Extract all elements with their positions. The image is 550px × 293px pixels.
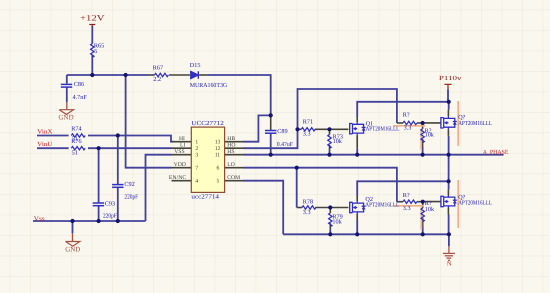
wire R76 to LI pin [88,147,172,149]
svg-text:R74: R74 [71,126,81,133]
wire R74 to HI jog [88,136,173,142]
junction dot Vss/C93 [97,219,101,223]
pin stub QB gate [423,201,441,203]
svg-text:R?: R? [403,112,410,119]
pin stub U1 pin1 HI [172,141,192,143]
transistor QT Q? [441,116,457,129]
svg-text:VinU: VinU [37,141,53,148]
transistor Q1 [350,122,366,135]
svg-text:R71: R71 [303,119,313,126]
wire C92 column upper [117,136,119,185]
wire QB source to COM rail [448,215,450,235]
resistor RB10k R? [421,208,424,222]
pin stub Q1 source [356,135,358,149]
svg-text:1: 1 [195,139,198,145]
svg-text:C93: C93 [105,201,115,208]
svg-text:GND: GND [65,246,80,254]
pin stub U1 pin6 LO [225,167,243,169]
resistor R78 [302,206,316,209]
wire A_PHASE vertical mid [448,155,450,182]
svg-text:C89: C89 [277,128,287,135]
wire Q2 source to COM rail [356,220,358,234]
collision marker horizontal RT3.3 [393,125,425,127]
svg-text:11: 11 [215,152,221,158]
wire A_PHASE tail [449,154,504,156]
junction dot Q2 source/COM rail [355,232,359,236]
wire Vss rail [33,220,146,222]
junction dot Vss/C92 [116,219,120,223]
wire COM net elbow [243,181,283,235]
svg-text:VDD: VDD [174,162,186,168]
ground GND2 [72,233,74,241]
resistor R79 [329,213,332,227]
ground N earth symbol [443,246,455,260]
svg-text:3.3: 3.3 [303,209,311,216]
svg-text:220pF: 220pF [124,194,138,201]
wire VinX net to R74 [37,135,69,137]
pin stub Q2 source [356,214,358,220]
wire R79 lower blue [329,230,331,235]
junction dot rail/R65 [90,73,94,77]
svg-text:Vss: Vss [34,215,45,222]
svg-text:APT20M16LLL: APT20M16LLL [365,201,399,208]
svg-text:A_PHASE: A_PHASE [483,149,509,156]
svg-text:7: 7 [195,165,198,171]
wire diode out to HB corner [208,75,271,115]
svg-text:2: 2 [195,146,198,152]
resistor R73 [328,135,331,149]
collision marker vertical RT10k [420,129,422,150]
wire R65 to +12V rail [91,55,93,76]
pin stub RT10k upper [422,123,424,129]
wire R73 lower blue [329,151,331,155]
wire RB10k lower blue [422,226,424,234]
svg-text:ucc27714: ucc27714 [191,193,219,200]
svg-text:LI: LI [180,143,185,149]
svg-text:HO: HO [227,143,235,149]
svg-text:0.47uF: 0.47uF [277,141,294,148]
pin stub U1 pin11 HS [225,154,243,156]
resistor R65 [91,44,94,58]
svg-text:D15: D15 [190,62,201,69]
wire LO net run [243,168,397,202]
junction dot C89/HS [269,153,273,157]
pin stub U1 pin4 EN/NC [172,180,192,182]
wire P110v lead [447,90,449,102]
svg-text:R?: R? [403,192,410,199]
svg-text:10k: 10k [333,138,343,145]
pin stub RB3.3 right [417,201,423,203]
junction dot HS/A_PHASE [447,153,451,157]
wire R78 branch drop [296,168,298,208]
svg-text:VSS: VSS [174,149,184,155]
svg-text:220pF: 220pF [103,213,117,220]
pin stub Q2 drain [356,196,358,202]
svg-text:GND: GND [59,114,74,122]
junction dot LO/R78 [295,166,299,170]
wire C92 column lower [117,187,119,221]
transistor Q2 [350,201,366,214]
svg-text:13: 13 [215,139,221,145]
svg-text:51: 51 [72,149,78,156]
wire Q1 source to HS [356,149,358,155]
junction dot R79/COM rail [328,232,332,236]
svg-text:HI: HI [179,136,185,142]
svg-text:10k: 10k [425,132,435,139]
wire HS line [243,154,449,156]
svg-text:R78: R78 [303,199,313,206]
resistor R74 [71,134,85,137]
pin stub R71 left [298,128,302,130]
wire C89 lower lead [270,133,272,155]
junction dot R73/HS [327,153,331,157]
pin stub U1 pin3 VSS [172,154,192,156]
capacitor C92 [112,185,123,188]
wire A_PHASE vertical to QB drain [448,181,450,190]
junction dot Q2 drain/A_PHASE [447,179,451,183]
collision marker horizontal RB3.3 [394,205,424,207]
pin stub U1 pin2 LI [172,147,192,149]
svg-text:2.2: 2.2 [153,76,161,83]
pin stub QB drain [447,190,449,195]
pin stub QT gate [423,122,441,124]
junction dot R71/R73 [327,127,331,131]
svg-text:COM: COM [227,175,240,181]
wire VinU net to R76 [37,147,69,149]
wire C86 bottom lead [66,87,68,102]
wire ground N lead [448,234,450,246]
svg-text:4.7nF: 4.7nF [73,94,88,101]
svg-text:R76: R76 [71,138,81,145]
pin stub RB10k upper [422,202,424,208]
pin stub R73 upper [329,129,331,134]
pin stub R67 right to D15 [169,74,190,76]
pin stub Q1 drain [356,117,358,123]
svg-text:MURA160T3G: MURA160T3G [190,82,228,89]
svg-text:4: 4 [195,178,198,184]
wire VDD drop from rail to pin 7 [126,75,172,168]
wire +12V to R65 [91,26,93,44]
pin stub R78 right / Q2 gate row [315,207,348,209]
svg-text:C92: C92 [124,181,134,188]
wire HB pin path [243,115,271,141]
svg-text:C86: C86 [74,81,84,88]
junction dot rail/VDD [124,73,128,77]
power +12V bar [89,25,95,27]
wire HO net to top run [243,89,397,148]
junction dot Q1 source/HS [355,153,359,157]
junction dot R78/R79 [328,205,332,209]
pin stub RB3.3 left [397,201,403,203]
pin stub R67 left [149,74,155,76]
diode D15 [191,71,199,78]
resistor R76 [71,147,85,150]
junction dot Vss/GND2 [70,219,74,223]
pin stub R79 lower [329,223,331,229]
junction dot VinU/C93 [97,146,101,150]
junction dot HB node [269,113,273,117]
pin stub U1 pin13 HB [225,141,243,143]
transistor QB Q? [441,195,457,208]
svg-text:3.3: 3.3 [404,125,412,132]
wire VSS riser to pin 3 [146,155,172,221]
svg-text:UCC27712: UCC27712 [191,120,223,127]
collision marker vertical QT [457,101,459,146]
pin stub C89 upper [270,115,272,130]
svg-text:R67: R67 [153,65,163,72]
pin stub RT3.3 right [417,122,423,124]
svg-text:HB: HB [227,136,235,142]
svg-text:5: 5 [217,178,220,184]
wire C86 top lead [66,75,68,84]
collision marker vertical QB [457,180,459,228]
svg-text:3.3: 3.3 [303,131,311,138]
junction dot RT10k/HS [421,153,425,157]
svg-text:10k: 10k [332,218,342,225]
svg-text:APT20M16LLL: APT20M16LLL [366,126,400,133]
wire RT10k lower blue [422,147,424,155]
svg-text:P110v: P110v [439,75,463,82]
junction dot VinX/C92 [116,133,120,137]
wire QT source to HS [448,136,450,155]
svg-text:LO: LO [227,162,234,168]
op-amp U1 UCC27712 body [191,127,224,192]
pin stub QT source [447,129,449,136]
svg-text:3: 3 [195,152,198,158]
junction dot RT3.3/RT10k [421,121,425,125]
junction dot HO/R71 [295,127,299,131]
wire Q2 drain riser [357,181,448,195]
pin stub D15 cathode [199,74,208,76]
wire COM rail [283,233,449,235]
svg-text:APT20M16LLL: APT20M16LLL [458,200,492,207]
junction dot RB10k/COM rail [421,232,425,236]
power P110v bar [444,84,451,89]
capacitor C93 [93,203,104,206]
wire C93 column upper [98,148,100,202]
svg-text:APT20M16LLL: APT20M16LLL [458,120,492,127]
resistor R71 [301,128,315,131]
svg-text:6: 6 [217,165,220,171]
wire Q1 drain riser to P110v row [357,102,449,117]
junction dot QB source/COM rail [447,232,451,236]
junction dot P110v/Q1 drain [447,100,451,104]
pin stub RT3.3 left [397,122,403,124]
wire P110v junction to QT drain [448,102,450,110]
svg-text:12: 12 [215,146,221,152]
resistor R67 [155,73,169,76]
svg-text:VinX: VinX [37,129,53,136]
capacitor C89 [265,131,276,134]
svg-text:3.3: 3.3 [403,205,411,212]
pin stub R78 left [297,207,302,209]
ground GND1 [66,102,68,110]
wire C93 column lower [98,206,100,221]
svg-text:+12V: +12V [80,14,105,23]
pin stub QT drain [447,110,449,117]
pin stub RT10k lower [422,139,424,147]
svg-text:10k: 10k [425,206,435,213]
wire GND2 lead [72,221,74,233]
resistor RT10k R? [421,129,424,143]
pin stub U1 pin7 VDD [172,167,192,169]
junction dot RB3.3/RB10k [421,200,425,204]
svg-text:EN/NC: EN/NC [169,175,187,181]
pin stub R73 lower [329,145,331,151]
pin stub U1 pin5 COM [225,180,243,182]
pin stub U1 pin12 HO [225,147,243,149]
pin stub RB10k lower [422,218,424,226]
pin stub QB source [447,208,449,215]
svg-text:N: N [447,260,452,267]
wire +12V rail [67,74,149,76]
pin stub R71 right / Q1 gate row [315,128,349,130]
pin stub R79 upper [329,208,331,213]
resistor RB3.3 R? [403,200,417,203]
collision marker vertical RB10k [420,207,422,229]
svg-text:HS: HS [227,149,234,155]
capacitor C86 [61,84,72,87]
resistor RT3.3 R? [403,121,417,124]
svg-text:5: 5 [94,48,97,55]
